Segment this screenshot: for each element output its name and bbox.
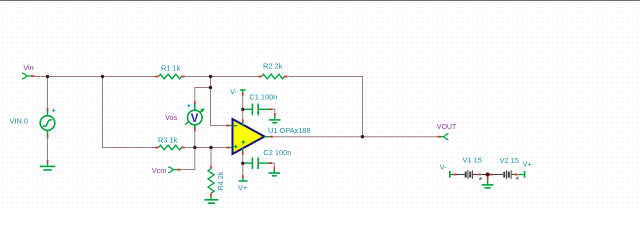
wire [180, 148, 195, 170]
svg-text:R1 1k: R1 1k [161, 63, 181, 72]
value label R3 1k [158, 136, 178, 145]
svg-text:R3 1k: R3 1k [158, 136, 178, 145]
junction node A [46, 75, 49, 78]
junction node G [241, 108, 244, 111]
svg-text:VIN 0: VIN 0 [10, 117, 28, 126]
svg-text:V: V [191, 113, 199, 125]
wire [289, 77, 363, 137]
voltage source Vos [185, 101, 205, 131]
power V+ (op-amp) [239, 175, 248, 181]
value label V1 15 [463, 156, 482, 165]
wire [242, 164, 244, 175]
resistor R1 [155, 74, 184, 79]
svg-text:Vcm: Vcm [152, 166, 167, 175]
svg-text:V2 15: V2 15 [500, 156, 519, 165]
power label V- (supply) [440, 163, 448, 172]
ground (supply mid) [482, 177, 494, 188]
wire [272, 136, 438, 138]
node label Vcm [152, 166, 167, 175]
node label Vin [23, 63, 34, 72]
window top border [0, 0, 640, 1]
resistor R4 [208, 166, 214, 197]
wire [272, 109, 275, 114]
capacitor C1 [244, 104, 272, 116]
svg-text:V+: V+ [523, 160, 532, 169]
wire [210, 148, 212, 167]
op-amp U1 [226, 119, 273, 155]
svg-text:R2 2k: R2 2k [263, 61, 283, 70]
power terminal V- (supply rail) [450, 171, 457, 178]
junction node B [101, 75, 104, 78]
svg-text:V-: V- [230, 87, 238, 96]
voltage source VIN [40, 108, 55, 138]
junction node D [209, 86, 212, 89]
svg-text:Vos: Vos [165, 113, 178, 122]
ground (C2) [269, 167, 281, 176]
value label C1 100n [249, 92, 277, 101]
power terminal V+ (supply rail) [517, 171, 524, 178]
junction node E [193, 146, 196, 149]
capacitor C2 [244, 157, 272, 169]
port VOUT [437, 134, 448, 140]
resistor R3 [155, 145, 184, 150]
wire [272, 163, 275, 167]
wire [195, 88, 211, 102]
ground (C1) [269, 113, 281, 123]
svg-text:*: * [516, 175, 520, 185]
svg-text:R4 2k: R4 2k [216, 171, 225, 191]
wire [211, 77, 227, 126]
ground (VIN) [40, 160, 55, 170]
value label C2 100n [263, 148, 291, 157]
node label Vos [165, 113, 178, 122]
svg-text:C1 100n: C1 100n [249, 92, 277, 101]
resistor R2 [258, 74, 287, 79]
power label V+ [238, 183, 247, 192]
junction node C [209, 75, 212, 78]
battery V1 [457, 170, 483, 185]
svg-text:C2 100n: C2 100n [263, 148, 291, 157]
value label R1 1k [161, 63, 181, 72]
power label V- [230, 87, 238, 96]
svg-text:V1 15: V1 15 [463, 156, 482, 165]
power label V+ (supply) [523, 160, 532, 169]
pin tick (supply mid right) [490, 174, 493, 176]
wire [47, 77, 49, 109]
svg-text:V+: V+ [238, 183, 247, 192]
junction node H [241, 162, 244, 165]
wire [185, 76, 259, 78]
value label V2 15 [500, 156, 519, 165]
wire [103, 77, 156, 148]
wire [242, 155, 244, 162]
junction node I [361, 135, 364, 138]
svg-text:V-: V- [440, 163, 448, 172]
wire [194, 131, 196, 147]
svg-text:VOUT: VOUT [437, 124, 457, 131]
value label R4 2k [216, 171, 225, 191]
wire [242, 95, 244, 108]
ground (R4) [204, 196, 218, 203]
battery V2 [504, 170, 519, 185]
power V- (op-amp) [240, 90, 246, 96]
svg-text:U1 OPAx188: U1 OPAx188 [268, 126, 311, 135]
node label VOUT [437, 124, 457, 131]
port Vin [22, 73, 34, 79]
wire [481, 174, 503, 176]
junction node F [209, 146, 212, 149]
port Vcm [168, 167, 180, 173]
value label R2 2k [263, 61, 283, 70]
wire [34, 76, 156, 78]
value label VIN 0 [10, 117, 28, 126]
svg-text:Vin: Vin [23, 63, 34, 72]
junction (supply mid) [486, 173, 490, 177]
wire [47, 138, 49, 161]
value label U1 OPAx188 [268, 126, 311, 135]
wire [242, 110, 244, 119]
wire [185, 147, 227, 149]
